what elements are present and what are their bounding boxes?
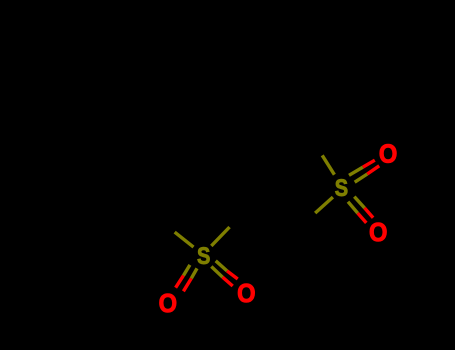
wire S2-ring olive half (322, 155, 334, 174)
svg-text:S: S (335, 174, 348, 201)
S1=O2 b olive (211, 267, 222, 278)
svg-text:O: O (379, 141, 397, 169)
S2=O3 b red (367, 166, 379, 174)
wire C1-C2 (256, 199, 289, 239)
svg-text:O: O (159, 290, 177, 318)
wire C2 dark half (289, 213, 315, 239)
S2=O4 a olive (354, 197, 364, 208)
svg-text:S: S (197, 242, 210, 269)
S2=O4 a red (365, 208, 374, 218)
svg-text:O: O (369, 219, 387, 247)
S1=O2 a olive (216, 261, 227, 271)
wire S2-C2 olive half (315, 197, 333, 213)
benzene ring left (black-on-black) (72, 139, 152, 224)
wire S1-C1 olive half (211, 227, 229, 246)
wire S1-ring olive half (175, 232, 194, 247)
S1=O2 a red (227, 271, 238, 279)
wire ring dark half (146, 209, 175, 232)
wire C1 dark half (230, 199, 256, 228)
svg-text:O: O (237, 280, 255, 308)
S1=O1 a red (176, 276, 184, 288)
S2=O4 b olive (348, 202, 358, 213)
S1=O1 b olive (191, 268, 197, 278)
S1=O2 b red (223, 277, 233, 286)
benzene ring right (black-on-black) (238, 49, 324, 124)
S2=O4 b red (358, 213, 367, 223)
S2=O3 a red (363, 160, 375, 167)
S1=O1 b red (183, 278, 191, 291)
wire ring2 dark half (303, 123, 322, 155)
S2=O3 b olive (355, 174, 368, 182)
S2=O3 a olive (349, 167, 363, 175)
S1=O1 a olive (183, 265, 190, 276)
